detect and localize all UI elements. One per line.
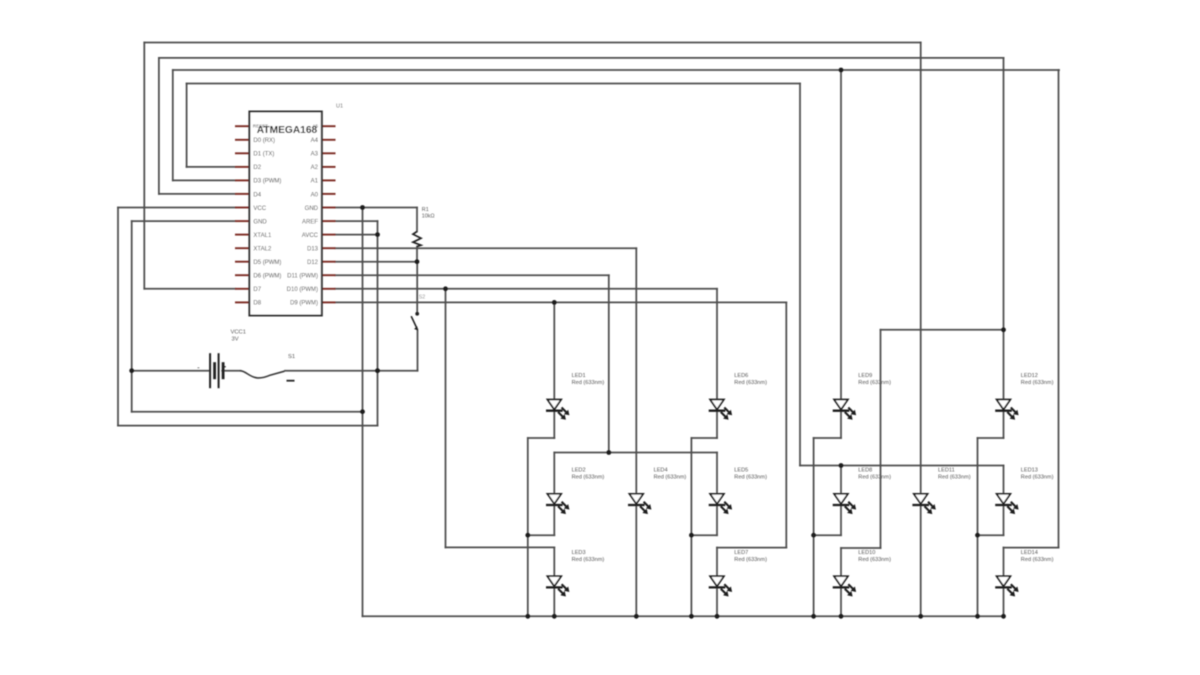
svg-text:Red (633nm): Red (633nm) [1021,557,1054,563]
svg-text:D10 (PWM): D10 (PWM) [287,287,318,293]
svg-text:D2: D2 [253,165,261,171]
svg-text:10kΩ: 10kΩ [422,214,435,220]
svg-text:GND: GND [253,219,267,225]
svg-text:A1: A1 [311,179,319,185]
svg-text:•: • [224,365,226,371]
svg-text:D12: D12 [307,260,319,266]
svg-text:LED4: LED4 [654,468,668,474]
svg-text:D0 (RX): D0 (RX) [253,138,275,144]
svg-text:LED12: LED12 [1021,373,1038,379]
svg-text:A4: A4 [311,138,319,144]
svg-text:Red (633nm): Red (633nm) [572,380,605,386]
svg-text:Red (633nm): Red (633nm) [858,557,891,563]
svg-text:A2: A2 [311,165,319,171]
svg-text:LED9: LED9 [858,373,872,379]
svg-text:D5 (PWM): D5 (PWM) [253,260,281,266]
svg-text:S2: S2 [419,295,426,301]
svg-text:Red (633nm): Red (633nm) [858,380,891,386]
svg-text:LED11: LED11 [938,468,955,474]
svg-text:LED7: LED7 [734,550,748,556]
svg-text:D1 (TX): D1 (TX) [253,152,274,158]
svg-text:D13: D13 [307,246,319,252]
svg-text:A0: A0 [311,192,319,198]
svg-text:D9 (PWM): D9 (PWM) [290,301,318,307]
svg-text:XTAL1: XTAL1 [253,233,272,239]
svg-text:D4: D4 [253,192,261,198]
svg-text:Red (633nm): Red (633nm) [654,474,687,480]
svg-text:AVCC: AVCC [302,233,319,239]
svg-text:LED8: LED8 [858,468,872,474]
svg-text:S1: S1 [288,354,295,360]
svg-text:LED5: LED5 [734,468,748,474]
svg-text:VCC1: VCC1 [231,330,246,336]
svg-text:LED14: LED14 [1021,550,1038,556]
svg-text:D6 (PWM): D6 (PWM) [253,274,281,280]
svg-text:D11 (PWM): D11 (PWM) [287,274,318,280]
svg-text:LED10: LED10 [858,550,875,556]
svg-text:U1: U1 [336,104,343,110]
svg-text:Red (633nm): Red (633nm) [1021,380,1054,386]
svg-text:D3 (PWM): D3 (PWM) [253,179,281,185]
svg-text:R1: R1 [422,207,429,213]
svg-text:VCC: VCC [253,206,266,212]
svg-text:LED13: LED13 [1021,468,1038,474]
svg-text:ATMEGA168: ATMEGA168 [257,125,318,136]
svg-text:Red (633nm): Red (633nm) [734,557,767,563]
svg-text:LED3: LED3 [572,550,586,556]
svg-text:3V: 3V [232,337,239,343]
svg-text:AREF: AREF [302,219,318,225]
svg-text:LED6: LED6 [734,373,748,379]
svg-text:D7: D7 [253,287,261,293]
svg-text:Red (633nm): Red (633nm) [1021,474,1054,480]
svg-text:GND: GND [305,206,319,212]
svg-text:Red (633nm): Red (633nm) [734,380,767,386]
svg-text:D8: D8 [253,301,261,307]
svg-text:Red (633nm): Red (633nm) [572,557,605,563]
svg-text:A3: A3 [311,152,319,158]
svg-text:Red (633nm): Red (633nm) [734,474,767,480]
svg-text:Red (633nm): Red (633nm) [858,474,891,480]
svg-text:Red (633nm): Red (633nm) [572,474,605,480]
svg-text:LED2: LED2 [572,468,586,474]
svg-text:Red (633nm): Red (633nm) [938,474,971,480]
svg-text:LED1: LED1 [572,373,586,379]
svg-text:XTAL2: XTAL2 [253,246,272,252]
